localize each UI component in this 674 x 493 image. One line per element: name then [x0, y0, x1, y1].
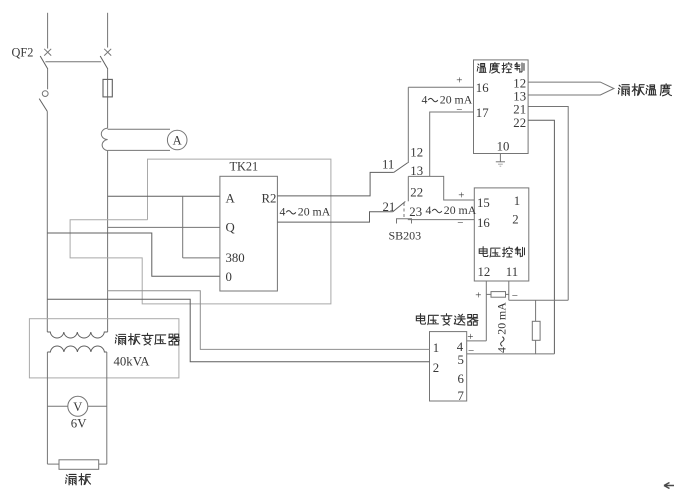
wire: light routed loop around TK21	[70, 159, 331, 304]
svg-text:20 mA: 20 mA	[440, 92, 473, 106]
svg-text:4: 4	[426, 203, 432, 217]
wire: left bus upper	[47, 69, 49, 90]
svg-text:380: 380	[226, 251, 245, 265]
cursor arrow bottom right	[664, 483, 674, 489]
wire: minus rail to pin21 drop	[509, 299, 568, 301]
svg-text:22: 22	[410, 186, 423, 200]
switch SB203 blade 11	[394, 163, 408, 173]
fuse FU	[103, 79, 112, 97]
svg-text:11: 11	[382, 158, 394, 172]
svg-text:−: −	[457, 217, 463, 229]
svg-text:16: 16	[476, 81, 489, 95]
label lou-ban-wen-du (bushing temperature)	[618, 85, 629, 96]
wire: A input	[108, 195, 220, 197]
transformer secondary winding	[47, 346, 106, 352]
svg-text:6: 6	[458, 372, 465, 386]
controller volt-control box	[474, 188, 529, 281]
svg-text:7: 7	[458, 389, 465, 403]
wire: pin5 minus lead	[467, 353, 555, 355]
wire: contact 23 to volt ctrl pin16	[408, 219, 475, 221]
label dian-ya-kong-zhi (voltage control)	[479, 247, 488, 257]
wire: secondary left down	[46, 352, 48, 464]
svg-text:22: 22	[513, 116, 526, 130]
wire: contact 22 stub	[407, 176, 409, 201]
svg-text:4: 4	[495, 347, 509, 353]
wire: A-to-380 drop	[182, 196, 184, 258]
controller TK21 box	[220, 176, 278, 291]
wire: left pole lead-in	[47, 13, 49, 49]
wire: + into temp ctrl pin16	[408, 86, 473, 88]
svg-text:4: 4	[457, 340, 464, 354]
svg-text:15: 15	[477, 196, 490, 210]
svg-text:20 mA: 20 mA	[495, 302, 509, 335]
svg-text:V: V	[73, 400, 82, 414]
svg-text:+: +	[475, 289, 481, 301]
wire: R2 output - to switch 21	[277, 212, 392, 222]
wire: resistor left lead	[486, 293, 491, 295]
svg-text:0: 0	[226, 270, 232, 284]
svg-text:20 mA: 20 mA	[444, 203, 477, 217]
wire: pin11 stub down	[508, 281, 510, 300]
resistor shunt vertical	[532, 321, 540, 340]
svg-text:Q: Q	[226, 220, 236, 234]
svg-text:SB203: SB203	[389, 229, 422, 243]
svg-text:23: 23	[409, 205, 422, 219]
wire: pin12 down to transmitter plus	[485, 281, 487, 341]
svg-text:4: 4	[280, 205, 286, 219]
wire: 0 input from bus	[47, 233, 220, 276]
svg-text:A: A	[226, 191, 236, 205]
label lou-ban (bushing plate)	[66, 474, 76, 484]
wire: Q input	[108, 226, 220, 228]
svg-text:R2: R2	[262, 191, 277, 205]
wire: resistor right lead	[506, 293, 509, 295]
thermocouple probe arrow	[528, 82, 614, 95]
label lou-ban-bian-ya-qi (bushing transformer)	[115, 334, 125, 344]
wire: voltmeter right lead	[88, 405, 107, 407]
label wen-du-kong-zhi (temperature control)	[477, 64, 486, 73]
breaker QF2 contact x left	[44, 49, 51, 56]
wire: contact 13 to volt ctrl pin15	[408, 176, 474, 200]
wire: shunt branch lower	[535, 340, 537, 354]
breaker QF2 contact x right	[104, 49, 111, 56]
wire: left bus	[46, 111, 48, 332]
wire: plate left lead	[47, 463, 59, 465]
svg-text:16: 16	[477, 216, 490, 230]
svg-text:10: 10	[497, 140, 510, 154]
wire: pin4 plus lead	[467, 340, 487, 342]
svg-text:A: A	[173, 134, 182, 148]
wire: ammeter bottom lead	[108, 149, 170, 151]
ammeter A	[167, 130, 187, 150]
resistor bushing plate	[59, 460, 99, 470]
svg-text:1: 1	[514, 194, 520, 208]
svg-text:5: 5	[458, 353, 464, 367]
wire: right pole through fuse	[107, 69, 109, 129]
transmitter box	[430, 332, 467, 401]
ground symbol	[499, 154, 501, 162]
wire: - into temp ctrl pin17	[430, 112, 474, 176]
svg-text:20 mA: 20 mA	[298, 205, 331, 219]
label dian-ya-bian-song-qi (voltage transmitter)	[416, 314, 425, 324]
svg-text:6V: 6V	[71, 417, 87, 431]
wire: pin22 down to transmitter minus	[528, 120, 554, 354]
svg-text:11: 11	[506, 265, 518, 279]
svg-text:12: 12	[478, 265, 491, 279]
resistor R sampling	[491, 292, 506, 298]
wire: R2 output + to switch 11	[277, 172, 393, 196]
knife switch blade	[39, 99, 47, 112]
svg-text:21: 21	[513, 103, 526, 117]
controller temp-control box	[474, 60, 529, 154]
wire: right pole lead-in	[107, 13, 109, 48]
knife switch QS contact circle	[42, 91, 48, 97]
svg-text:−: −	[468, 345, 474, 357]
svg-text:13: 13	[513, 89, 526, 103]
current transformer TA bumps	[101, 128, 107, 150]
label 4-20mA vertical	[495, 302, 509, 353]
wire: 380 input	[183, 257, 220, 259]
wire: shunt branch upper	[535, 300, 537, 321]
svg-text:2: 2	[433, 361, 439, 375]
switch actuator dashed link	[403, 203, 405, 219]
wire: main tap to transmitter pin1	[108, 291, 430, 350]
breaker blade right	[100, 56, 108, 69]
transformer primary winding	[47, 332, 107, 338]
switch SB203 blade 21	[393, 202, 406, 212]
switch button bracket	[397, 219, 412, 224]
wire: plate right lead	[99, 463, 107, 465]
svg-text:21: 21	[383, 200, 396, 214]
svg-text:+: +	[456, 74, 462, 86]
wire: ammeter top lead	[108, 128, 170, 130]
svg-text:40kVA: 40kVA	[114, 355, 151, 369]
breaker blade left	[40, 56, 48, 69]
wire: bus tap to transmitter pin2	[47, 299, 429, 362]
breaker tie bar	[45, 61, 101, 63]
wire: contact 12 up to temp ctrl +	[407, 87, 409, 163]
svg-text:4: 4	[422, 92, 428, 106]
wire: pin21 down right side	[528, 107, 568, 301]
wire: secondary right down	[106, 352, 108, 464]
wire: voltmeter left lead	[47, 405, 67, 407]
svg-text:12: 12	[513, 76, 526, 90]
wire: right pole main vertical	[107, 151, 109, 332]
svg-text:+: +	[458, 189, 464, 201]
svg-text:TK21: TK21	[230, 160, 259, 174]
svg-text:17: 17	[476, 106, 489, 120]
svg-text:QF2: QF2	[12, 45, 34, 59]
transformer enclosure outline	[29, 319, 179, 378]
svg-text:1: 1	[433, 341, 439, 355]
svg-text:2: 2	[512, 212, 518, 226]
voltmeter V	[68, 396, 88, 416]
svg-text:12: 12	[410, 146, 423, 160]
